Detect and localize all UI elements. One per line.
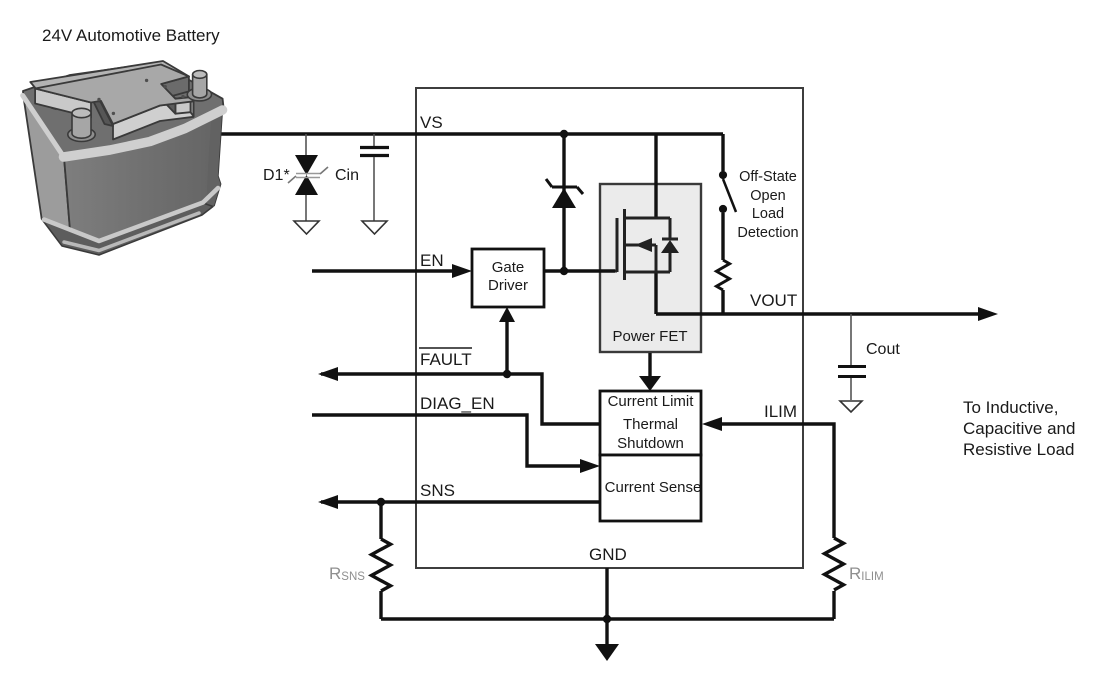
svg-text:To Inductive,: To Inductive, <box>963 398 1058 417</box>
svg-text:Resistive Load: Resistive Load <box>963 440 1075 459</box>
svg-text:24V Automotive Battery: 24V Automotive Battery <box>42 26 220 45</box>
svg-text:VOUT: VOUT <box>750 291 797 310</box>
svg-text:Cin: Cin <box>335 167 359 184</box>
svg-text:Cout: Cout <box>866 341 900 358</box>
svg-text:Capacitive and: Capacitive and <box>963 419 1075 438</box>
svg-text:Off-State: Off-State <box>739 169 797 185</box>
svg-text:Shutdown: Shutdown <box>617 435 684 452</box>
svg-text:Open: Open <box>750 188 785 204</box>
svg-text:Power FET: Power FET <box>612 328 687 345</box>
svg-text:DIAG_EN: DIAG_EN <box>420 394 495 413</box>
svg-text:ILIM: ILIM <box>764 402 797 421</box>
svg-text:Load: Load <box>752 206 784 222</box>
svg-text:D1*: D1* <box>263 167 290 184</box>
svg-text:Detection: Detection <box>737 225 798 241</box>
svg-text:EN: EN <box>420 251 444 270</box>
svg-text:FAULT: FAULT <box>420 350 472 369</box>
svg-text:Current Sense: Current Sense <box>605 479 702 496</box>
svg-text:RSNS: RSNS <box>329 564 365 583</box>
svg-text:Thermal: Thermal <box>623 416 678 433</box>
svg-text:RILIM: RILIM <box>849 564 884 583</box>
svg-text:Driver: Driver <box>488 277 528 294</box>
svg-text:Current Limit: Current Limit <box>608 393 695 410</box>
svg-text:SNS: SNS <box>420 481 455 500</box>
svg-text:VS: VS <box>420 113 443 132</box>
svg-text:GND: GND <box>589 545 627 564</box>
svg-text:Gate: Gate <box>492 259 525 276</box>
